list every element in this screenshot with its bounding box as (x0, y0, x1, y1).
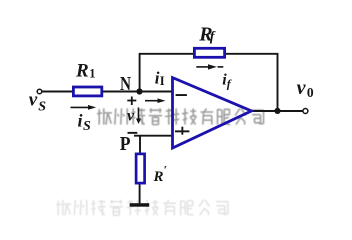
current arrow iS (71, 105, 97, 110)
resistor Rf (194, 48, 224, 57)
svg-text:i: i (78, 111, 83, 131)
svg-text:v: v (297, 77, 307, 99)
plus sign of input voltage marking (near N) (127, 97, 136, 106)
svg-text:v: v (127, 108, 135, 125)
svg-text:f: f (210, 30, 216, 45)
terminal circle vS (37, 89, 42, 94)
terminal circle v0 (303, 109, 308, 114)
wire: top horizontal left of Rf (139, 53, 194, 55)
wire: R' down to ground (139, 184, 141, 204)
op-amp minus sign inside (176, 94, 187, 96)
current arrow iI (145, 98, 166, 103)
watermark row middle (97, 108, 264, 124)
svg-text:N: N (120, 74, 131, 95)
svg-text:R: R (75, 61, 89, 82)
current arrow if (196, 64, 223, 69)
resistor R1 (73, 87, 101, 96)
svg-text:f: f (227, 76, 232, 90)
svg-text:R: R (153, 169, 164, 185)
input voltage down arrow (136, 108, 141, 125)
wire: P branch down to R' (139, 136, 141, 154)
wire: source to R1 (42, 91, 73, 93)
node N junction dot (136, 88, 142, 94)
wire: feedback vertical up from node N (139, 54, 141, 92)
resistor R' (136, 154, 145, 183)
svg-text:I: I (160, 74, 165, 88)
svg-text:P: P (120, 134, 131, 155)
svg-text:v: v (29, 89, 38, 110)
wire: top horizontal right of Rf and drop to output node (226, 54, 278, 111)
minus sign of input voltage marking (above P) (128, 132, 138, 134)
svg-text:S: S (38, 100, 46, 115)
ground (130, 203, 150, 207)
watermark row bottom (56, 200, 228, 215)
svg-text:0: 0 (307, 85, 314, 100)
op-amp plus sign inside (175, 127, 189, 135)
svg-text:1: 1 (89, 67, 95, 81)
op-amp U1 triangle (173, 78, 252, 148)
wire: op-amp output to terminal (251, 110, 303, 112)
output junction dot (274, 108, 280, 114)
wire: R1 to op-amp inverting input (103, 91, 173, 93)
svg-text:′: ′ (164, 163, 167, 177)
wire: non-inverting input horizontal from P (134, 135, 173, 137)
svg-text:S: S (83, 119, 91, 134)
